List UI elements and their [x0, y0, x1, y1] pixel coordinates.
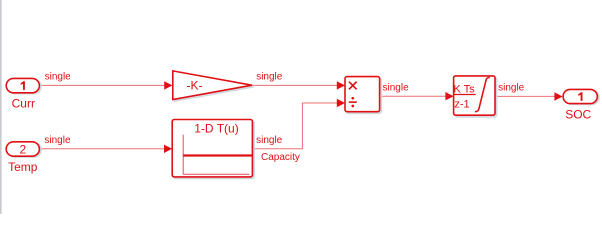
signal label single (Lookup output): [256, 135, 283, 146]
block name SOC: [565, 107, 591, 121]
block name Temp: [8, 160, 38, 174]
integrator fraction bar: [453, 94, 476, 96]
gain value label -K-: [187, 78, 203, 92]
lookup table title 1-D T(u): [194, 122, 238, 136]
svg-text:Temp: Temp: [8, 160, 38, 174]
svg-text:SOC: SOC: [565, 107, 591, 121]
signal label single (Gain output): [256, 72, 283, 83]
svg-text:-K-: -K-: [187, 78, 203, 92]
svg-text:2: 2: [19, 142, 26, 156]
signal label single (Product output): [383, 82, 410, 93]
svg-text:z-1: z-1: [454, 98, 469, 110]
svg-text:K Ts: K Ts: [453, 84, 475, 96]
signal name label Capacity: [261, 152, 300, 163]
svg-text:single: single: [256, 135, 283, 146]
block name Curr: [12, 97, 35, 111]
svg-text:single: single: [256, 72, 283, 83]
discrete-time integrator block: [454, 76, 497, 117]
arrowhead into integrator: [445, 92, 453, 100]
signal label single (Curr wire): [45, 72, 72, 83]
svg-text:single: single: [45, 72, 72, 83]
wire Gain to Product: [252, 84, 339, 86]
arrowhead into gain: [164, 81, 172, 89]
inport block 1 Curr: [6, 78, 41, 93]
lookup table curve: [183, 154, 252, 156]
wire Temp to Lookup: [40, 148, 166, 150]
arrowhead into lookup table: [164, 145, 172, 153]
divide symbol: [349, 97, 357, 108]
integrator denominator z-1: [454, 98, 469, 110]
gain block -K-: [173, 71, 254, 101]
multiply symbol x: [349, 82, 357, 90]
canvas left edge: [0, 0, 2, 214]
arrowhead into product port 1: [337, 81, 345, 89]
svg-text:single: single: [498, 83, 525, 94]
lookup table x-axis: [183, 173, 249, 175]
port number 1 (SOC): [578, 92, 582, 101]
svg-text:Curr: Curr: [12, 97, 35, 111]
arrowhead into product port 2: [337, 99, 345, 107]
integral sign: [475, 77, 490, 111]
port number 1 (Curr): [21, 81, 25, 90]
wire Lookup to Product (routed): [253, 103, 339, 149]
wire Curr to Gain: [40, 84, 166, 86]
wire Integrator to SOC: [495, 95, 556, 97]
inport block 2 Temp: [6, 142, 41, 157]
svg-text:single: single: [44, 135, 71, 146]
svg-text:1-D T(u): 1-D T(u): [194, 122, 238, 136]
integrator numerator K Ts: [453, 84, 475, 96]
1-D lookup table block: [172, 120, 254, 179]
outport block 1 SOC: [563, 89, 599, 104]
svg-text:Capacity: Capacity: [261, 152, 300, 163]
signal label single (Temp wire): [44, 135, 71, 146]
arrowhead into outport SOC: [554, 92, 562, 100]
port number 2 (Temp): [19, 142, 26, 156]
product (multiply-divide) block: [345, 77, 381, 114]
svg-text:single: single: [383, 82, 410, 93]
lookup table y-axis: [182, 135, 184, 175]
signal label single (Integrator output): [498, 83, 525, 94]
wire Product to Integrator: [380, 95, 447, 97]
